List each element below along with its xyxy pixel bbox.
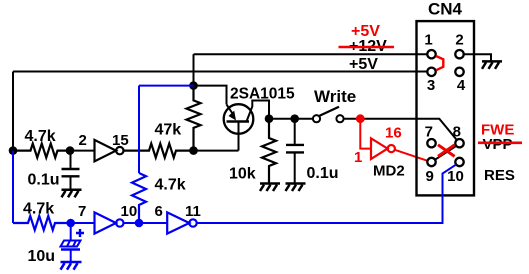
pin 8 [455,139,463,147]
connector CN4 box [417,21,475,195]
transistor Q1 2SA1015 (PNP) [194,86,227,105]
svg-text:0.1u: 0.1u [28,172,60,189]
svg-text:4.7k: 4.7k [25,128,56,145]
svg-text:8: 8 [453,123,461,140]
switch SW1 Write [313,115,320,122]
wire: collector bus [269,118,313,120]
svg-text:4.7k: 4.7k [23,201,54,218]
svg-text:3: 3 [427,77,435,94]
ground (under right 0.1u) [286,184,306,192]
ground (right of pin 2) [482,61,502,69]
resistor 47k (horizontal, inverter 15 output to base node) [124,144,194,158]
node: blue rail junction [135,219,144,228]
svg-text:VPP: VPP [483,136,513,153]
red X mark [438,145,455,157]
ground (under left 0.1u) [62,190,82,198]
svg-text:10: 10 [121,203,138,220]
resistor 4.7k blue vertical [132,173,146,223]
svg-text:2SA1015: 2SA1015 [230,86,295,103]
wire: blue left rail down [12,151,14,223]
svg-text:+5V: +5V [349,56,378,73]
op-amp MD2 red inverter pins 1/16 [360,119,427,161]
node: red junction (Write / MD2 input) [356,114,365,123]
wire: blue top segment to emitter node [139,85,194,87]
svg-text:9: 9 [426,168,434,185]
node: left rail / 4.7k junction [9,146,18,155]
svg-text:15: 15 [112,132,129,149]
svg-text:6: 6 [155,203,163,220]
pin 2 [455,50,463,58]
capacitor 0.1u (right) [294,119,296,145]
pin 1 [427,50,435,58]
wire: vertical from +12V rail to emitter node [193,54,195,85]
jumper red pin1-pin3 [436,56,443,70]
op-amp U2 inverter pins 7/10 (blue) [71,212,168,233]
node: emitter supply junction [189,81,198,90]
node: 0.1u junction [290,114,299,123]
wire: left vertical rail x=13 [12,72,14,151]
resistor 4.7k blue (bottom left) [13,216,71,230]
capacitor C 10u electrolytic [61,223,85,262]
ground (under 10u, blue) [61,262,82,270]
svg-text:16: 16 [385,125,402,142]
pin 4 [455,68,463,76]
svg-text:1: 1 [424,32,432,49]
wire: pin 2 to ground [464,54,491,61]
wire: top-left horizontal +5V rail to CN4 pin 3 [13,71,427,73]
capacitor 0.1u (left) [70,151,72,169]
op-amp U1 inverter pins 2/15 [70,150,95,152]
node: collector / 10k junction [265,114,274,123]
node: junction after 4.7k / 0.1u / inverter input [66,146,75,155]
svg-text:0.1u: 0.1u [307,165,339,182]
resistor 47k vertical (emitter node to base node) [187,86,201,151]
svg-text:CN4: CN4 [428,0,463,19]
wire: pin 9 to pin 8 diagonal [435,146,456,160]
svg-text:1: 1 [354,149,362,166]
svg-text:2: 2 [79,132,87,149]
wire: +12V/+5V rail (line A) to CN4 pin 1 [194,53,428,55]
svg-text:10: 10 [447,168,464,185]
svg-text:MD2: MD2 [373,163,405,180]
svg-text:2: 2 [455,32,463,49]
pin 7 [427,139,435,147]
resistor 4.7k (row 1 left) [13,144,70,158]
svg-text:10u: 10u [28,248,56,265]
wire: switch to CN4 pin 8 [344,119,457,140]
resistor 10k vertical [262,119,276,184]
svg-text:4.7k: 4.7k [155,177,186,194]
svg-text:RES: RES [484,167,515,184]
node: base node junction [189,146,198,155]
wire: blue vertical rail x=139 [138,86,140,173]
svg-text:47k: 47k [155,122,182,139]
ground (under 10k) [260,184,280,192]
svg-text:10k: 10k [229,166,256,183]
pin 9 [427,158,435,166]
svg-text:7: 7 [78,203,86,220]
wire: blue bus from inverter 11 to CN4 pin 10 [197,165,456,223]
pin 10 [455,158,463,166]
svg-text:Write: Write [314,87,356,106]
svg-text:7: 7 [425,123,433,140]
svg-text:4: 4 [457,77,466,94]
node: blue junction (10u / inverter 7) [66,219,75,228]
svg-text:11: 11 [185,203,201,220]
pin 3 [427,68,435,76]
op-amp U3 inverter pins 6/11 (blue) [167,212,197,233]
